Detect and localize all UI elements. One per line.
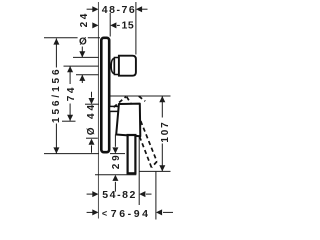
- svg-text:54-82: 54-82: [102, 189, 137, 201]
- svg-text:74: 74: [66, 85, 77, 101]
- svg-text:Ø: Ø: [79, 36, 87, 47]
- svg-text:48-76: 48-76: [102, 4, 137, 16]
- svg-text:24: 24: [79, 11, 90, 27]
- svg-text:29: 29: [111, 152, 122, 169]
- svg-text:107: 107: [160, 121, 171, 143]
- svg-text:<: <: [102, 208, 109, 218]
- svg-text:15: 15: [122, 20, 135, 32]
- svg-text:Ø 44: Ø 44: [86, 102, 97, 135]
- svg-text:156/156: 156/156: [51, 67, 62, 123]
- svg-text:6-94: 6-94: [119, 208, 150, 220]
- svg-text:7: 7: [111, 208, 119, 220]
